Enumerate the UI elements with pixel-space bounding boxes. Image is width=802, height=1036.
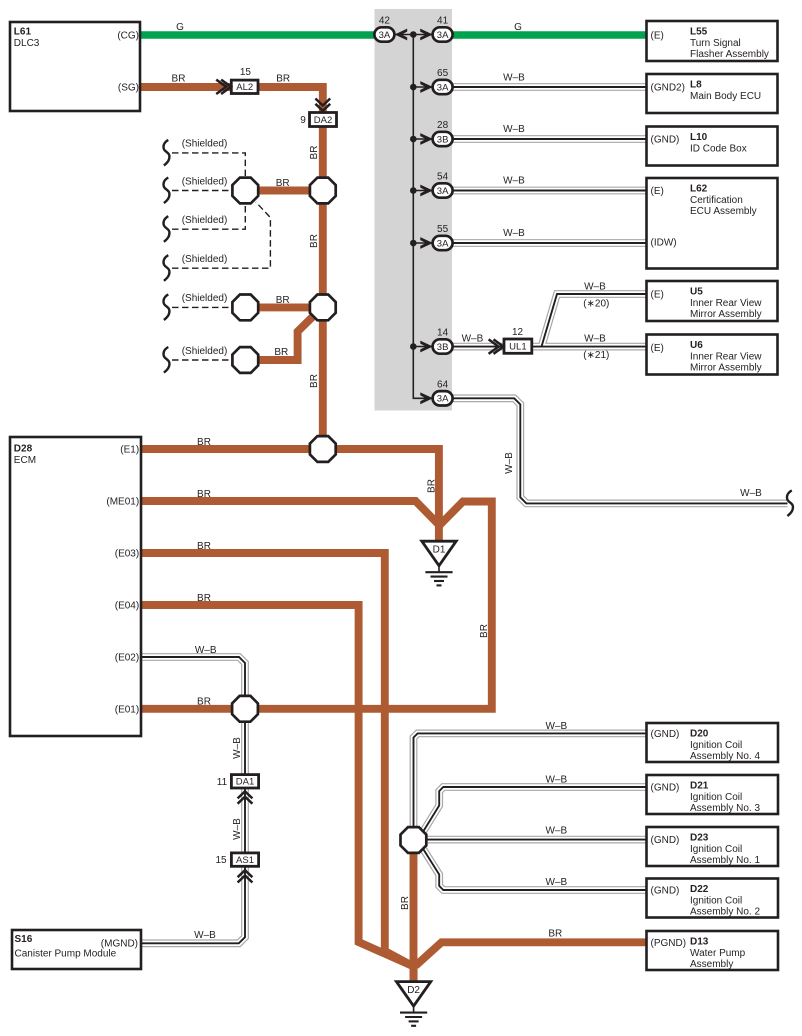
svg-text:(GND2): (GND2) (651, 83, 685, 94)
svg-text:Certification: Certification (690, 195, 743, 206)
svg-text:(Shielded): (Shielded) (182, 254, 228, 265)
svg-text:ID Code Box: ID Code Box (690, 143, 747, 154)
svg-text:W–B: W–B (195, 645, 217, 656)
svg-text:Assembly No. 2: Assembly No. 2 (690, 907, 760, 918)
svg-text:D2: D2 (407, 985, 420, 996)
svg-text:Assembly No. 4: Assembly No. 4 (690, 751, 760, 762)
svg-text:W–B: W–B (545, 826, 567, 837)
svg-text:(E): (E) (651, 343, 664, 354)
svg-text:55: 55 (437, 224, 449, 235)
svg-text:3B: 3B (437, 342, 449, 353)
svg-text:BR: BR (309, 234, 320, 248)
svg-text:54: 54 (437, 172, 449, 183)
svg-text:9: 9 (300, 115, 306, 126)
svg-text:(GND): (GND) (651, 135, 680, 146)
svg-text:ECU Assembly: ECU Assembly (690, 206, 757, 217)
svg-text:(E): (E) (651, 31, 664, 42)
svg-text:(E1): (E1) (120, 445, 139, 456)
svg-text:BR: BR (309, 146, 320, 160)
svg-text:Canister Pump Module: Canister Pump Module (15, 948, 117, 959)
svg-text:D23: D23 (690, 833, 709, 844)
svg-text:W–B: W–B (584, 334, 606, 345)
svg-text:AS1: AS1 (236, 855, 254, 866)
svg-text:BR: BR (309, 374, 320, 388)
svg-text:W–B: W–B (503, 73, 525, 84)
svg-text:BR: BR (400, 896, 411, 910)
svg-text:3A: 3A (437, 30, 449, 41)
svg-text:W–B: W–B (545, 721, 567, 732)
svg-text:Water Pump: Water Pump (690, 948, 746, 959)
svg-text:D20: D20 (690, 729, 709, 740)
svg-text:(∗21): (∗21) (583, 350, 609, 361)
svg-text:BR: BR (427, 479, 438, 493)
svg-text:(Shielded): (Shielded) (182, 139, 228, 150)
svg-text:S16: S16 (15, 934, 33, 945)
svg-text:BR: BR (197, 541, 211, 552)
svg-text:(Shielded): (Shielded) (182, 293, 228, 304)
svg-text:W–B: W–B (232, 737, 243, 759)
svg-text:BR: BR (276, 178, 290, 189)
svg-text:W–B: W–B (194, 930, 216, 941)
svg-text:Assembly: Assembly (690, 959, 733, 970)
svg-text:BR: BR (276, 295, 290, 306)
svg-text:W–B: W–B (462, 334, 484, 345)
svg-text:U5: U5 (690, 287, 703, 298)
svg-text:(GND): (GND) (651, 835, 680, 846)
svg-text:W–B: W–B (232, 818, 243, 840)
svg-text:3A: 3A (437, 394, 449, 405)
svg-text:(ME01): (ME01) (106, 497, 139, 508)
svg-text:L10: L10 (690, 132, 708, 143)
svg-text:W–B: W–B (503, 228, 525, 239)
svg-text:D22: D22 (690, 884, 709, 895)
svg-text:L62: L62 (690, 184, 708, 195)
svg-text:3A: 3A (437, 82, 449, 93)
svg-text:BR: BR (479, 624, 490, 638)
svg-text:15: 15 (240, 67, 252, 78)
svg-text:65: 65 (437, 68, 449, 79)
svg-text:28: 28 (437, 120, 449, 131)
svg-text:(GND): (GND) (651, 783, 680, 794)
svg-text:Ignition Coil: Ignition Coil (690, 740, 742, 751)
svg-text:Ignition Coil: Ignition Coil (690, 895, 742, 906)
svg-text:(Shielded): (Shielded) (182, 176, 228, 187)
svg-text:Turn Signal: Turn Signal (690, 38, 741, 49)
svg-text:(GND): (GND) (651, 729, 680, 740)
svg-text:BR: BR (276, 74, 290, 85)
svg-text:BR: BR (197, 593, 211, 604)
svg-text:W–B: W–B (545, 775, 567, 786)
svg-text:BR: BR (197, 696, 211, 707)
svg-text:UL1: UL1 (509, 341, 526, 352)
svg-text:Inner Rear View: Inner Rear View (690, 351, 762, 362)
svg-text:L55: L55 (690, 27, 708, 38)
svg-text:BR: BR (197, 437, 211, 448)
svg-text:Ignition Coil: Ignition Coil (690, 792, 742, 803)
svg-text:41: 41 (437, 16, 449, 27)
svg-text:D1: D1 (433, 545, 446, 556)
svg-text:(E04): (E04) (115, 601, 139, 612)
svg-text:(E01): (E01) (115, 705, 139, 716)
svg-text:W–B: W–B (503, 124, 525, 135)
svg-text:D21: D21 (690, 781, 709, 792)
svg-text:14: 14 (437, 328, 449, 339)
svg-text:3A: 3A (437, 186, 449, 197)
svg-text:64: 64 (437, 379, 449, 390)
svg-text:Mirror Assembly: Mirror Assembly (690, 309, 762, 320)
svg-text:15: 15 (215, 855, 227, 866)
svg-text:U6: U6 (690, 340, 703, 351)
svg-text:G: G (514, 22, 522, 33)
svg-text:(IDW): (IDW) (651, 238, 677, 249)
svg-text:AL2: AL2 (236, 82, 253, 93)
svg-text:42: 42 (379, 16, 391, 27)
svg-text:D28: D28 (14, 444, 33, 455)
svg-text:(Shielded): (Shielded) (182, 346, 228, 357)
svg-text:(GND): (GND) (651, 886, 680, 897)
svg-text:(Shielded): (Shielded) (182, 215, 228, 226)
svg-text:(SG): (SG) (118, 83, 139, 94)
svg-text:W–B: W–B (545, 877, 567, 888)
svg-text:BR: BR (274, 347, 288, 358)
svg-text:3A: 3A (437, 238, 449, 249)
svg-text:Mirror Assembly: Mirror Assembly (690, 363, 762, 374)
svg-text:3B: 3B (437, 134, 449, 145)
svg-text:Assembly No. 3: Assembly No. 3 (690, 803, 760, 814)
svg-text:(E03): (E03) (115, 549, 139, 560)
svg-text:DA1: DA1 (236, 777, 254, 788)
svg-text:W–B: W–B (740, 488, 762, 499)
svg-text:Assembly No. 1: Assembly No. 1 (690, 855, 760, 866)
svg-text:Flasher Assembly: Flasher Assembly (690, 49, 769, 60)
svg-text:L8: L8 (690, 80, 702, 91)
svg-text:BR: BR (197, 489, 211, 500)
svg-text:DLC3: DLC3 (14, 38, 40, 49)
svg-text:(E): (E) (651, 186, 664, 197)
svg-text:ECM: ECM (14, 455, 36, 466)
svg-text:Main Body ECU: Main Body ECU (690, 91, 761, 102)
svg-text:W–B: W–B (584, 281, 606, 292)
svg-text:BR: BR (548, 929, 562, 940)
svg-text:3A: 3A (379, 30, 391, 41)
svg-text:(E): (E) (651, 290, 664, 301)
svg-text:Ignition Coil: Ignition Coil (690, 844, 742, 855)
svg-text:11: 11 (217, 777, 228, 788)
svg-text:(PGND): (PGND) (651, 938, 687, 949)
svg-text:BR: BR (172, 74, 186, 85)
svg-text:(E02): (E02) (115, 653, 139, 664)
svg-text:(∗20): (∗20) (583, 299, 609, 310)
svg-text:DA2: DA2 (314, 115, 332, 126)
svg-text:Inner Rear View: Inner Rear View (690, 298, 762, 309)
svg-text:12: 12 (512, 327, 524, 338)
svg-text:G: G (176, 22, 184, 33)
svg-text:W–B: W–B (503, 176, 525, 187)
svg-text:L61: L61 (14, 27, 32, 38)
svg-text:D13: D13 (690, 937, 709, 948)
svg-text:(CG): (CG) (117, 31, 139, 42)
svg-text:W–B: W–B (504, 452, 515, 474)
